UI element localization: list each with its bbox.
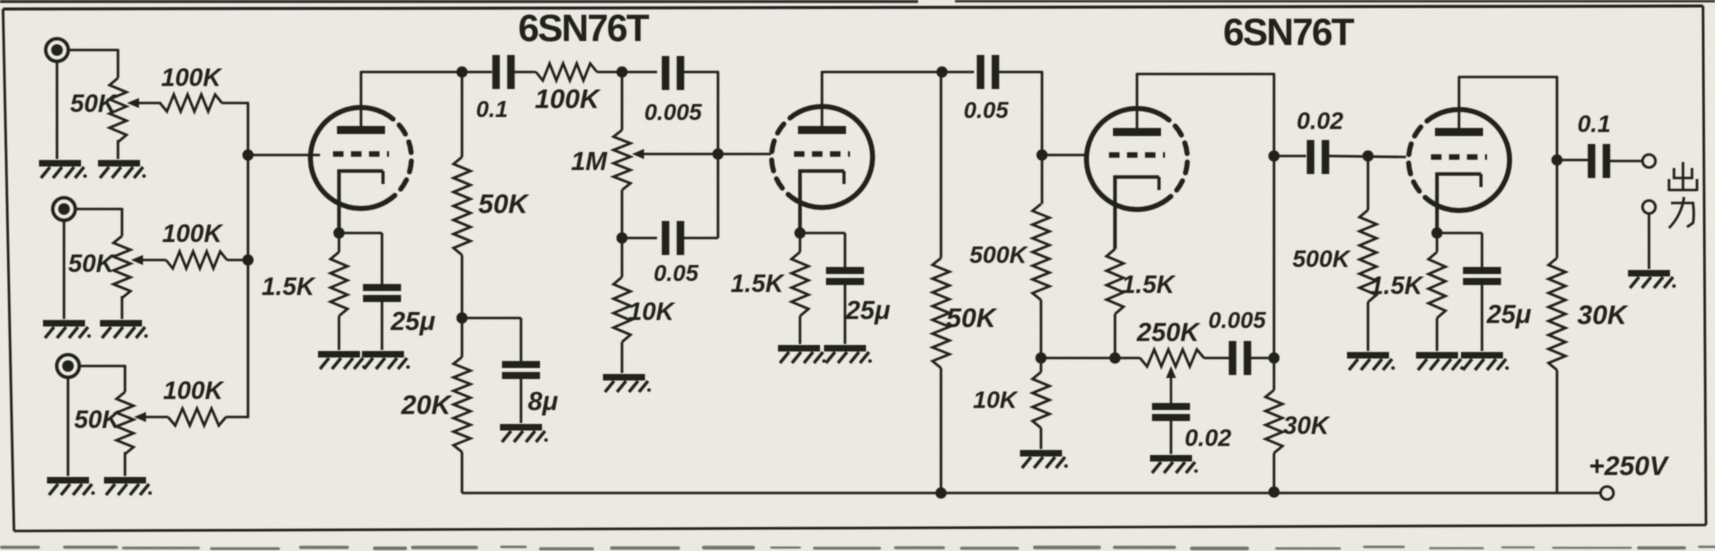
svg-text:0.05: 0.05 [964,97,1010,123]
resistor 500K (V3 grid leak) [969,155,1049,372]
ground [500,424,548,442]
wire plate rail V3 [1137,74,1275,390]
ground [43,320,91,338]
resistor 100K (channel 2 mixer) [162,220,227,269]
wire [74,208,122,236]
potentiometer 50K (channel 3 volume) [74,392,168,476]
wire [514,71,536,74]
wire plate V4 [1458,77,1558,258]
resistor 10K (V2 grid return) [614,277,676,373]
svg-text:0.1: 0.1 [476,96,508,122]
node mixer bus [242,149,253,265]
resistor 1.5K (V1 cathode) [262,233,348,350]
svg-text:25μ: 25μ [1486,299,1532,329]
svg-text:20K: 20K [400,390,453,420]
capacitor 0.05 (tone, bass) [654,221,700,286]
wire plate V2 [821,71,824,126]
label 6SN7GT (first) [518,8,649,50]
wire [1041,357,1140,360]
wire [1274,155,1306,158]
wire [1610,160,1643,163]
resistor 10K (V3 cathode divider) [973,372,1050,449]
svg-text:1.5K: 1.5K [731,270,786,298]
wire [622,237,657,240]
ground [318,351,366,369]
capacitor 8uF (filter) [502,361,558,423]
svg-text:+250V: +250V [1589,451,1670,481]
tube V3 triode 6SN7GT section A [1086,108,1187,249]
svg-text:10K: 10K [973,387,1019,414]
node cathode V3 [1109,352,1120,363]
terminal +250V [1589,451,1670,500]
resistor 30K (V3 plate load) [1266,390,1331,493]
tube V1 triode 6SN7GT section A [310,107,411,233]
wire [67,49,118,78]
label 6SN7GT (second) [1223,12,1354,54]
node [1268,486,1279,497]
tube V2 triode 6SN7GT section B [772,106,873,233]
svg-text:0.05: 0.05 [654,260,700,286]
wire [684,72,719,238]
wire [78,365,125,392]
node [1551,154,1562,165]
input jack J3 [57,355,80,378]
wire [1437,233,1482,268]
wire [462,318,521,362]
resistor 1.5K (V4 cathode) [1370,233,1446,351]
resistor 500K (V4 grid leak) [1292,156,1376,351]
capacitor 0.02 (wiper bypass) [1152,403,1232,454]
svg-text:500K: 500K [1292,246,1351,273]
svg-text:500K: 500K [969,242,1028,269]
wire grid of V2 [718,153,771,156]
ground [1150,455,1198,473]
wire plate V1 [360,71,363,126]
node [712,148,723,159]
wire plate rail V1 [361,71,492,74]
svg-text:50K: 50K [478,189,530,219]
node grid V3 [1036,149,1047,160]
svg-text:1.5K: 1.5K [262,273,317,301]
node [1268,150,1279,161]
wire [800,233,845,268]
node cathode V4 [1431,227,1442,238]
svg-text:0.02: 0.02 [1297,108,1344,135]
input jack J1 [46,39,69,62]
capacitor 0.02 (coupling) [1297,108,1344,174]
svg-text:100K: 100K [162,220,224,248]
label output (kanji) [1669,162,1697,228]
scan edge top [0,0,1715,3]
svg-text:1.5K: 1.5K [1122,271,1177,299]
node cathode V2 [794,227,805,238]
wire grid of V3 [1042,154,1086,157]
ground [98,160,146,178]
resistor 20K (decoupling) [400,357,470,493]
svg-text:250K: 250K [1136,317,1201,347]
output terminal hot [1643,155,1656,168]
svg-text:50K: 50K [946,303,998,333]
node [456,66,467,77]
svg-text:0.005: 0.005 [644,99,703,125]
capacitor 0.005 (feedback) [1208,307,1267,375]
svg-text:0.02: 0.02 [1185,425,1232,452]
wire [684,237,718,240]
svg-text:0.1: 0.1 [1577,111,1610,138]
wire [63,219,66,319]
capacitor 0.1 (coupling) [476,55,515,122]
svg-text:50K: 50K [68,250,116,278]
node [936,66,947,77]
output terminal ground [1643,201,1656,270]
wire [1251,357,1275,360]
wire plate V3 [1136,73,1139,128]
svg-text:6SN76T: 6SN76T [1223,12,1354,54]
wire [999,72,1043,155]
capacitor 0.005 (tone, treble) [644,56,703,125]
svg-text:50K: 50K [70,90,118,118]
ground [603,374,651,392]
svg-text:25μ: 25μ [390,306,436,336]
wire [222,103,249,418]
svg-text:50K: 50K [74,406,122,434]
svg-text:10K: 10K [628,298,676,326]
ground [362,351,410,369]
wire plate rail V2 [822,71,974,74]
svg-text:100K: 100K [535,84,602,114]
wire [227,259,249,262]
node [616,66,627,77]
capacitor 25uF (V4 cathode bypass) [1463,267,1532,351]
resistor 1.5K (V3 cathode) [1107,249,1177,358]
wire grid of V1 [248,154,320,157]
ground [778,345,826,363]
capacitor 0.1 (output coupling) [1577,111,1610,178]
wire [67,376,70,476]
ground [1416,352,1464,370]
wire [56,60,59,159]
node [1268,352,1279,363]
svg-text:1M: 1M [571,146,608,176]
node [616,232,627,243]
potentiometer 50K (channel 1 volume) [70,78,161,159]
ground [39,160,87,178]
node [1035,352,1046,363]
resistor 100K (channel 1 mixer) [160,64,223,112]
node [1362,150,1373,161]
resistor 1.5K (V2 cathode) [731,233,809,344]
ground [1461,352,1509,370]
tube V4 triode 6SN7GT section B [1409,109,1510,233]
node [456,312,467,323]
capacitor 25uF (V1 cathode bypass) [363,284,436,350]
potentiometer 250K (feedback) [1136,317,1204,404]
input jack J2 [53,198,76,221]
wire grid of V4 [1329,156,1406,157]
svg-text:0.005: 0.005 [1208,307,1267,333]
svg-text:8μ: 8μ [528,386,558,416]
capacitor 25uF (V2 cathode bypass) [826,267,891,344]
ground [1628,270,1676,288]
wire [597,71,657,74]
svg-text:100K: 100K [161,64,223,92]
resistor 100K (channel 3 mixer) [163,377,226,426]
wire [1557,159,1588,162]
potentiometer 50K (channel 2 volume) [68,236,166,319]
wire [226,416,249,419]
node [935,487,946,498]
ground [100,320,148,338]
ground [1347,352,1395,370]
resistor 50K (decoupling divider) [454,72,531,357]
wire [339,233,382,285]
wire [1204,357,1229,360]
ground [824,345,872,363]
ground [104,477,152,495]
svg-text:25μ: 25μ [845,295,891,325]
svg-text:30K: 30K [1577,300,1629,330]
potentiometer 1M (tone) [571,72,719,277]
ground [47,477,95,495]
scan edge bottom [0,546,1715,551]
svg-text:6SN76T: 6SN76T [518,8,649,50]
svg-text:1.5K: 1.5K [1370,272,1425,300]
wire B+ rail [462,492,1601,495]
svg-text:30K: 30K [1283,412,1331,440]
resistor 100K (grid stopper) [535,64,602,115]
ground [1020,450,1068,468]
svg-text:100K: 100K [163,377,225,405]
resistor 50K (V2 plate load) [933,72,999,493]
resistor 30K (V4 plate load) [1549,258,1630,493]
node cathode V1 [333,227,344,238]
capacitor 0.05 (coupling) [964,55,1010,123]
